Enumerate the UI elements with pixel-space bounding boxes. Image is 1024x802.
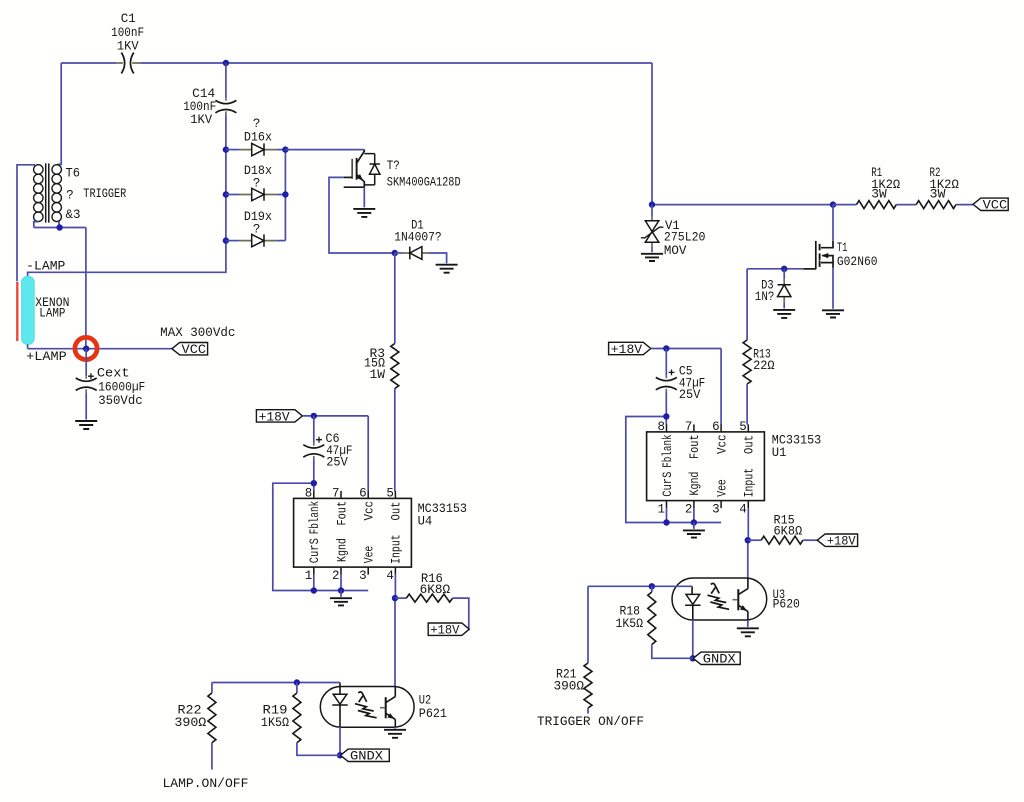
label U2 name/value [419,693,447,721]
node gate drive junction at D1 [392,250,398,256]
photo-transistor inside U3 [733,578,748,620]
svg-text:275L20: 275L20 [664,230,706,244]
svg-text:&3: &3 [66,208,81,222]
ground below T1 source [822,310,844,317]
label U1 pin names [661,434,757,497]
label T1 name/value [837,241,878,269]
diode D3 [778,269,791,309]
resistor R1 [833,201,896,209]
svg-text:CurS: CurS [308,538,322,563]
svg-text:Fout: Fout [688,434,702,459]
flag GNDX at U3 [693,652,740,664]
svg-text:P620: P620 [773,598,800,612]
svg-text:+LAMP: +LAMP [26,350,67,364]
label D16 name/value [244,117,272,144]
svg-text:Vcc: Vcc [715,434,729,454]
svg-text:2: 2 [685,502,693,516]
svg-text:+18V: +18V [259,410,291,424]
svg-text:GNDX: GNDX [350,750,384,764]
svg-text:?: ? [66,188,74,202]
svg-text:TRIGGER: TRIGGER [83,187,126,201]
flag +18V at R16 [428,623,469,635]
wire T1 gate to D3 and R13 [747,268,803,270]
svg-text:1K5Ω: 1K5Ω [261,716,290,730]
label Cext value [97,367,145,409]
svg-text:2: 2 [332,569,340,583]
label R1 value [871,166,900,202]
svg-text:-LAMP: -LAMP [26,259,65,273]
label C1 value [111,12,144,54]
wire U2 input net [212,682,340,684]
wire U4 input pin down [394,575,396,687]
flag +18V supply U1 [609,342,651,354]
node GNDX junction U3 [690,655,696,661]
label R21 value [554,667,585,693]
wire C6 bottom to pin8 and left loop [273,459,368,591]
svg-text:+18V: +18V [827,535,856,549]
resistor R13 [743,269,751,425]
svg-text:+18V: +18V [430,624,459,638]
wire U1 input pin down [747,508,750,578]
label R22 value [174,704,206,730]
svg-text:U2: U2 [419,693,432,707]
svg-text:6K8Ω: 6K8Ω [420,583,451,597]
wire C5 bottom to pin8 and left loop [626,392,721,523]
svg-text:LAMP: LAMP [39,307,65,321]
svg-text:8: 8 [657,420,665,434]
wire IGBT emitter to ground [363,187,365,207]
label XENON LAMP [35,296,69,321]
svg-text:C14: C14 [192,87,215,101]
svg-text:3: 3 [712,502,720,516]
wire U2 emitter to ground [394,727,396,728]
op-amp U1 MC33153 gate driver IC [647,424,765,508]
svg-text:D16x: D16x [244,130,272,144]
svg-text:6: 6 [712,420,720,434]
svg-text:T?: T? [387,159,400,173]
label C6 value [326,432,353,470]
svg-text:5: 5 [739,420,747,434]
svg-text:8: 8 [305,486,313,500]
label T6 name/value [66,166,127,222]
diode D18 [226,188,286,200]
transistor T? IGBT [344,150,380,188]
node junction top rail / C14 column [223,60,229,66]
svg-text:5: 5 [386,486,394,500]
resistor R22 [208,683,216,770]
svg-text:3W: 3W [930,188,947,202]
wire V1 node to T1 drain [832,205,834,241]
svg-text:+18V: +18V [611,343,643,357]
wire diode rail to IGBT collector [285,149,364,151]
svg-text:7: 7 [685,420,693,434]
svg-text:GNDX: GNDX [703,653,737,667]
node R16 junction [392,595,398,601]
wire top rail down to V1 node [652,63,833,205]
opto-coupler U2 P621 [320,683,414,728]
svg-text:7: 7 [332,486,340,500]
capacitor C5 [656,349,677,392]
flag +18V at R15 [817,534,857,546]
svg-text:Kgnd: Kgnd [688,472,702,496]
resistor R3 [391,253,399,491]
node R18 junction [649,583,655,589]
node C6 bottom junction [311,480,317,486]
wire +18V to C5 and Vcc pin [651,349,721,425]
svg-text:25V: 25V [679,388,701,402]
label U3 name/value [773,588,800,612]
svg-text:100nF: 100nF [111,26,144,40]
label D19 name/value [244,210,272,236]
node U4 bus junctions [311,587,317,593]
led arrows inside U2 [355,692,377,718]
resistor R19 [293,683,340,756]
lamp XENON LAMP [22,276,35,344]
wire C14 column upper [225,63,227,98]
svg-text:Out: Out [743,435,757,454]
resistor R21 [584,586,592,713]
capacitor Cext [76,349,97,393]
svg-text:4: 4 [386,569,394,583]
node R15 junction [745,537,751,543]
wire U1 ground stub [693,523,695,530]
svg-text:LAMP.ON/OFF: LAMP.ON/OFF [163,777,249,791]
wire IGBT gate loop [329,177,395,253]
flag GNDX at U2 [340,749,389,761]
svg-text:100nF: 100nF [183,100,216,114]
node C5 bottom junction [663,413,669,419]
svg-text:3: 3 [359,569,367,583]
diode D1 [395,247,447,264]
wire diode ladder right rail [284,150,286,241]
label D3 name/value [755,279,775,305]
node R1 branch junction [830,201,836,207]
wire U1 bottom pins bus [667,508,694,522]
wire Cext to ground [85,392,87,419]
svg-text:C1: C1 [121,12,136,26]
wire vertical drop to T6 primary [58,63,62,164]
ground below Cext [75,421,97,429]
wire U3 cathode to GNDX [692,620,694,659]
svg-text:Cext: Cext [97,367,130,381]
wire U4 bottom pins bus [314,575,341,591]
svg-text:1: 1 [657,502,665,516]
svg-text:Vcc: Vcc [363,501,377,521]
wire V1 to ground [651,246,653,252]
label T? name/value [387,159,461,190]
label U4 pin names [308,501,404,564]
svg-text:P621: P621 [419,707,447,721]
node V1 junction [649,201,655,207]
svg-text:6K8Ω: 6K8Ω [774,524,803,538]
resistor R15 [748,536,818,544]
ground below U1 [683,530,705,537]
svg-text:R18: R18 [620,604,641,618]
svg-text:Fblank: Fblank [661,434,675,467]
wire T1 source to ground [832,268,834,309]
svg-text:G02N60: G02N60 [837,255,878,269]
node diode ladder right junctions [282,146,288,152]
ground below V1 [641,254,663,261]
svg-text:1K5Ω: 1K5Ω [616,617,644,631]
op-amp U4 MC33153 gate driver IC [294,491,412,575]
annotation red circle marker [75,337,97,359]
svg-text:SKM400GA128D: SKM400GA128D [387,176,461,190]
svg-text:U4: U4 [418,515,433,529]
svg-text:4: 4 [739,502,747,516]
node R19 junction [294,679,300,685]
flag +18V supply U4 [256,410,302,422]
photo-transistor inside U2 [380,687,395,728]
label R13 value [753,347,775,372]
capacitor C1 [116,53,140,74]
wire C14 to diode ladder and -LAMP corner [28,115,226,277]
svg-text:MAX 300Vdc: MAX 300Vdc [160,326,235,340]
diode D19 [226,234,286,246]
svg-text:1KV: 1KV [190,113,212,127]
svg-text:CurS: CurS [661,472,675,497]
svg-text:1KV: 1KV [117,40,139,54]
wire U2 cathode to GNDX [339,727,341,755]
svg-text:Vee: Vee [715,479,729,497]
wire T6 bottom to +LAMP junction [85,228,87,349]
label R16 value [420,572,451,597]
node C6 top junction [311,413,317,419]
wire U3 emitter to ground [747,620,749,627]
svg-text:25V: 25V [326,456,348,470]
opto-coupler U3 P620 [672,578,767,620]
svg-text:VCC: VCC [983,199,1008,213]
svg-text:?: ? [253,223,261,237]
led arrows inside U3 [708,583,730,609]
ground below D3 [773,310,795,318]
label R18 value [616,604,644,631]
svg-text:?: ? [253,176,261,190]
svg-text:Out: Out [390,502,404,521]
svg-text:Input: Input [743,468,757,498]
flag VCC at +LAMP [172,343,208,355]
ground below U4 [330,598,352,605]
svg-text:Kgnd: Kgnd [335,538,349,562]
flag VCC top right [973,198,1008,210]
svg-text:Input: Input [390,534,404,564]
wire U3 input net [588,585,692,587]
ground below U2 [384,730,406,738]
svg-text:Fout: Fout [335,501,349,526]
capacitor C6 [303,416,324,459]
svg-text:16000µF: 16000µF [98,381,145,395]
svg-text:1N4007?: 1N4007? [394,231,441,245]
resistor R2 [916,201,956,209]
capacitor C14 [215,98,236,114]
svg-text:350Vdc: 350Vdc [98,394,143,408]
ground below U3 [737,628,759,636]
label U1 name/value [772,433,821,460]
node GNDX junction U2 [337,752,343,758]
node T6 bottom junction [56,224,62,230]
label U1 pin numbers [657,420,746,517]
wire +LAMP rail [28,344,172,348]
wire T6 secondary bottom rail [34,222,86,228]
node +LAMP junction [83,346,89,352]
svg-text:T1: T1 [837,241,848,255]
label R19 value [261,704,290,730]
svg-text:Fblank: Fblank [308,501,322,534]
label D1 name/value [394,219,441,245]
svg-text:Vee: Vee [363,546,377,564]
svg-text:390Ω: 390Ω [174,716,206,730]
svg-text:6: 6 [359,486,367,500]
transformer T6 [34,163,62,222]
wire T6 primary top to left rail [17,165,35,282]
label R2 value [930,166,960,202]
node D3 junction [781,266,787,272]
resistor R18 [648,586,693,658]
wire top rail from T6 to right corner [61,62,652,64]
svg-text:1W: 1W [370,368,386,382]
resistor R16 [395,594,469,628]
svg-text:390Ω: 390Ω [554,680,585,694]
label U4 name/value [418,502,467,529]
label U4 pin numbers [305,486,394,583]
svg-text:3W: 3W [871,188,887,202]
node diode ladder left junctions [223,146,229,152]
svg-text:22Ω: 22Ω [753,359,775,373]
wire R2 to VCC flag [956,204,973,206]
varistor V1 MOV [641,205,664,247]
label C14 value [183,87,216,127]
wire xenon lamp trigger electrode (red) [16,282,18,341]
label V1 name/value [664,219,706,258]
label D18 name/value [244,164,272,190]
svg-text:MOV: MOV [664,244,687,258]
ground below D1 [436,265,458,273]
svg-text:?: ? [253,117,261,131]
wire +18V to C6 and U4 Vcc [302,416,368,491]
svg-text:U1: U1 [772,446,787,460]
ground below IGBT emitter [353,209,375,217]
label C5 value [679,365,705,403]
transistor T1 MOSFET [803,241,833,270]
diode D16 [226,143,286,155]
node C5 top junction [663,345,669,351]
node U1 bus junctions [663,519,669,525]
svg-text:T6: T6 [66,166,81,180]
label R3 value [364,347,386,382]
svg-text:VCC: VCC [182,343,207,357]
label R15 value [774,513,803,538]
svg-text:1N?: 1N? [755,290,775,304]
wire U4 ground stub [340,591,342,597]
wire between R1 and R2 [896,204,916,206]
svg-text:TRIGGER ON/OFF: TRIGGER ON/OFF [537,715,644,729]
svg-text:1: 1 [305,569,313,583]
